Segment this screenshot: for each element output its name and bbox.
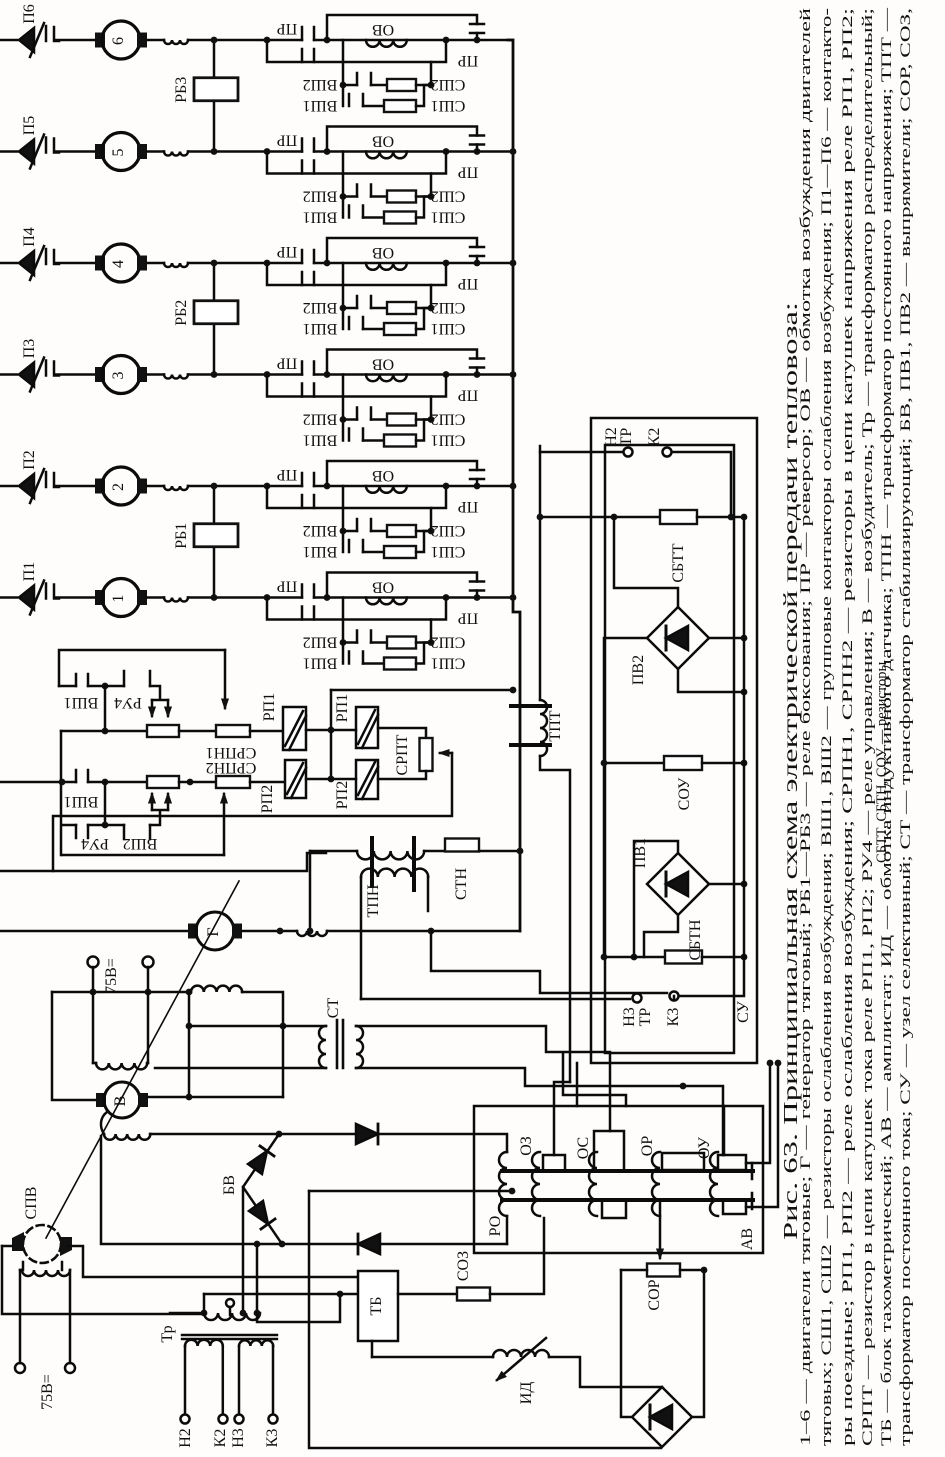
svg-text:П1: П1 xyxy=(21,562,38,582)
svg-text:ры поездные; РП1, РП2 — реле: ры поездные; РП1, РП2 — реле ослабления … xyxy=(840,8,856,1446)
winding frames xyxy=(543,1155,565,1171)
inductive pickup ИД xyxy=(372,1356,493,1359)
svg-text:1: 1 xyxy=(110,595,127,603)
generator Г xyxy=(0,930,188,933)
svg-text:ОЗ: ОЗ xyxy=(518,1136,535,1156)
svg-text:2: 2 xyxy=(110,483,127,491)
resistor СТН xyxy=(445,839,479,852)
relay РБ1 (боксование) between motors 2 and 1 xyxy=(213,486,216,598)
traction motor row 2 with ПР contactor, ОВ winding, ВШ/СШ resistors xyxy=(0,461,513,560)
svg-text:БВ: БВ xyxy=(221,1175,238,1195)
core bars xyxy=(502,1169,753,1173)
svg-text:РБ2: РБ2 xyxy=(173,300,190,326)
exciter В field winding xyxy=(93,992,148,1063)
svg-text:СРПТ: СРПТ xyxy=(394,734,411,775)
wire bundle СУ to АВ xyxy=(563,1053,626,1106)
resistor СРПТ (adjustable) xyxy=(378,728,426,738)
main bus collecting motor rows xyxy=(508,40,520,931)
resistor СОР xyxy=(659,1202,662,1258)
rectifier ПВ1 xyxy=(647,853,709,915)
transformer ТПТ (current) xyxy=(511,704,550,708)
traction motor row 3 with ПР contactor, ОВ winding, ВШ/СШ resistors xyxy=(0,350,513,449)
svg-text:1–6 — двигатели тяговые; Г —: 1–6 — двигатели тяговые; Г — генератор т… xyxy=(798,8,814,1446)
svg-text:4: 4 xyxy=(110,260,127,268)
СПВ winding + 75В terminals xyxy=(23,1262,62,1270)
svg-text:75В=: 75В= xyxy=(103,958,120,994)
svg-text:ПВ2: ПВ2 xyxy=(630,655,647,685)
svg-text:ТБ: ТБ xyxy=(368,1297,385,1316)
rectifier ПВ2 xyxy=(647,607,709,669)
svg-text:СОЗ: СОЗ xyxy=(455,1251,472,1281)
lower wire with diode xyxy=(101,1136,358,1244)
wire from coil over to СТ xyxy=(191,986,242,992)
svg-text:Тр: Тр xyxy=(159,1325,176,1342)
resistor СРПН1 xyxy=(61,730,147,733)
svg-text:РП2: РП2 xyxy=(259,785,276,813)
svg-text:АВ: АВ xyxy=(739,1228,756,1250)
svg-text:РП1: РП1 xyxy=(261,693,278,721)
svg-text:СБТТ, СБТН, СОУ — резисторы: СБТТ, СБТН, СОУ — резисторы xyxy=(874,662,890,863)
traction motor row 5 with ПР contactor, ОВ winding, ВШ/СШ resistors xyxy=(0,127,513,226)
resistor СБТН xyxy=(604,956,665,959)
svg-text:ВШ1: ВШ1 xyxy=(64,694,99,711)
svg-text:РБ3: РБ3 xyxy=(173,77,190,103)
diode to РО (upper) xyxy=(356,1124,378,1144)
svg-text:ТР: ТР xyxy=(637,1008,654,1027)
amplistat winding ОР xyxy=(652,1152,660,1216)
terminals Н2 ТР К2 xyxy=(540,451,622,454)
traction motor row 4 with ПР contactor, ОВ winding, ВШ/СШ resistors xyxy=(0,238,513,337)
svg-text:П6: П6 xyxy=(21,4,38,24)
svg-text:ОС: ОС xyxy=(575,1137,592,1159)
svg-text:РУ4: РУ4 xyxy=(81,835,109,852)
svg-text:СОУ: СОУ xyxy=(676,777,693,810)
svg-text:6: 6 xyxy=(110,37,127,45)
svg-text:ИД: ИД xyxy=(518,1382,535,1405)
svg-text:ТПН: ТПН xyxy=(365,884,382,917)
svg-text:СОР: СОР xyxy=(646,1279,663,1310)
svg-text:СТ: СТ xyxy=(325,998,342,1019)
exciter В xyxy=(96,1093,106,1107)
subexciter СПВ xyxy=(23,1225,61,1263)
amplistat winding ОУ xyxy=(710,1152,718,1216)
svg-text:5: 5 xyxy=(110,149,127,157)
resistor СБТТ xyxy=(540,516,660,519)
svg-text:СТН: СТН xyxy=(453,868,470,900)
transformer ТПН xyxy=(309,851,312,931)
СУ selective node outer box xyxy=(591,418,757,1063)
svg-text:трансформатор постоянного тока: трансформатор постоянного тока; СУ — узе… xyxy=(898,8,914,1446)
svg-text:РО: РО xyxy=(487,1216,504,1237)
resistor СОУ xyxy=(604,762,664,765)
relay РП2 coils xyxy=(285,760,306,798)
svg-text:К2: К2 xyxy=(212,1429,229,1448)
РУ4-ВШ1 contact group (upper) xyxy=(59,650,225,686)
svg-text:тяговых; СШ1, СШ2 — резисторы: тяговых; СШ1, СШ2 — резисторы ослабления… xyxy=(819,8,835,1446)
75В supply terminals xyxy=(88,957,99,968)
svg-text:В: В xyxy=(112,1096,129,1107)
svg-text:РП1: РП1 xyxy=(334,694,351,722)
rectifier БВ xyxy=(243,1134,282,1244)
РУ4-ВШ2 contact group (lower) + resistor СРПН2 xyxy=(0,781,76,784)
svg-text:РБ1: РБ1 xyxy=(173,523,190,549)
relay РБ2 (боксование) between motors 4 and 3 xyxy=(213,263,216,375)
svg-text:ОР: ОР xyxy=(639,1136,656,1157)
АВ amplistat outer box xyxy=(474,1106,763,1253)
traction motor row 1 with ПР contactor, ОВ winding, ВШ/СШ resistors xyxy=(0,573,513,672)
svg-text:П3: П3 xyxy=(21,339,38,359)
svg-text:СБТТ: СБТТ xyxy=(670,543,687,582)
amplistat winding РО xyxy=(499,1152,507,1216)
internal right bus xyxy=(743,517,746,957)
feedback rectifier bridge xyxy=(632,1387,692,1447)
svg-text:СПВ: СПВ xyxy=(23,1187,40,1220)
svg-text:РП2: РП2 xyxy=(334,781,351,809)
relay РП1 coils (slashed boxes) xyxy=(283,707,306,750)
amplistat winding ОЗ xyxy=(532,1152,540,1216)
svg-text:К2: К2 xyxy=(646,428,663,447)
shaft line Г-В-СПВ xyxy=(46,881,239,1238)
svg-text:Н3: Н3 xyxy=(621,1007,638,1027)
svg-text:ТР: ТР xyxy=(618,428,635,447)
terminals Н3 ТР К3 xyxy=(431,931,667,993)
svg-text:К3: К3 xyxy=(264,1429,281,1448)
tachometric block ТБ xyxy=(358,1271,398,1341)
svg-text:СУ: СУ xyxy=(735,1000,752,1022)
secondaries xyxy=(185,1340,223,1346)
svg-text:ВШ1: ВШ1 xyxy=(64,793,99,810)
svg-text:СРПН2: СРПН2 xyxy=(206,759,257,776)
svg-text:К3: К3 xyxy=(665,1008,682,1027)
amplistat winding ОС xyxy=(589,1152,597,1216)
relay РБ3 (боксование) between motors 6 and 5 xyxy=(213,40,216,152)
traction motor row 6 with ПР contactor, ОВ winding, ВШ/СШ resistors xyxy=(0,15,513,114)
winding connections xyxy=(378,1134,507,1152)
svg-text:П5: П5 xyxy=(21,116,38,136)
exciter series winding to БВ xyxy=(101,1112,107,1134)
svg-text:П2: П2 xyxy=(21,450,38,470)
svg-text:СБТН: СБТН xyxy=(687,919,704,960)
svg-text:Н3: Н3 xyxy=(230,1428,247,1448)
bottom return wire xyxy=(309,1191,661,1448)
svg-text:РУ4: РУ4 xyxy=(114,694,142,711)
svg-text:75В=: 75В= xyxy=(39,1374,56,1410)
svg-text:ВШ2: ВШ2 xyxy=(123,835,158,852)
svg-text:ТПТ: ТПТ xyxy=(547,710,564,741)
wire to page edge xyxy=(0,853,326,871)
svg-text:3: 3 xyxy=(110,372,127,380)
svg-text:СРПН1: СРПН1 xyxy=(206,744,257,761)
svg-text:Н2: Н2 xyxy=(177,1428,194,1448)
svg-text:П4: П4 xyxy=(21,227,38,247)
resistor СОЗ xyxy=(457,1288,490,1301)
